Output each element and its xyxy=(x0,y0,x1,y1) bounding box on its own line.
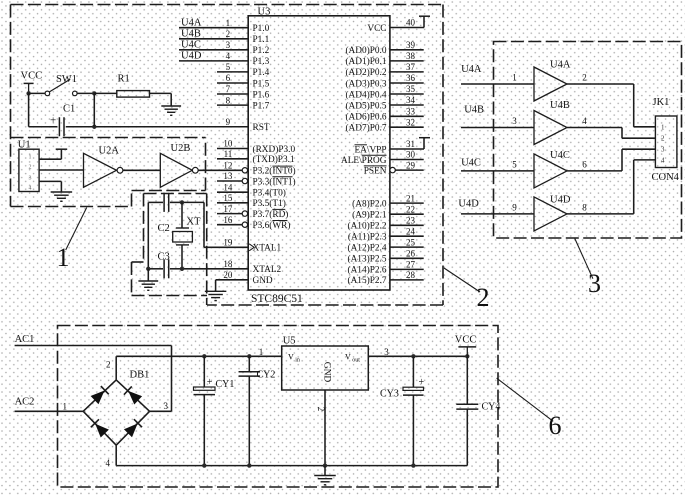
IC U3 STC89C51 body xyxy=(248,7,390,306)
svg-text:P1.5: P1.5 xyxy=(253,79,270,89)
U3 pin 40 (VCC) wire xyxy=(390,16,430,28)
ground (R1) xyxy=(161,106,181,115)
section 1 boundary step xyxy=(131,191,133,207)
U3 pin 22 ((A9)P2.1) wire xyxy=(390,204,424,214)
U3 pin 31 (EA\VPP) wire xyxy=(390,138,430,150)
U3 pin 11 ((TXD)P3.1) wire xyxy=(217,149,248,159)
U3 pin 1 (P1.0) wire xyxy=(179,18,248,28)
U3 pin label P3.6(WR) xyxy=(253,220,291,231)
buffer U4C xyxy=(534,150,570,188)
U3 pin 8 (P1.7) wire xyxy=(217,95,248,105)
U3 pin label P1.7 xyxy=(253,101,270,111)
svg-text:P1.7: P1.7 xyxy=(253,101,270,111)
wire bridge node 2 to positive rail xyxy=(116,356,282,380)
U3 pin 2 (P1.1) wire xyxy=(179,29,248,39)
U3 pin label P3.3(INT1) xyxy=(253,176,296,187)
U3 pin 19 (XTAL1) wire xyxy=(223,238,233,248)
svg-text:+: + xyxy=(207,377,213,388)
wire buffer output pin 4 to JK1 xyxy=(567,116,655,138)
svg-text:33: 33 xyxy=(406,107,416,117)
U3 pin label XTAL2 xyxy=(253,265,282,275)
U3 pin 6 (P1.5) wire xyxy=(217,73,248,83)
svg-text:34: 34 xyxy=(406,95,416,105)
ground (U3) xyxy=(205,291,227,300)
svg-text:P3.2(INT0): P3.2(INT0) xyxy=(253,166,296,177)
svg-text:(AD5)P0.5: (AD5)P0.5 xyxy=(345,100,386,111)
svg-text:18: 18 xyxy=(223,259,233,269)
svg-text:40: 40 xyxy=(406,18,416,28)
svg-text:1: 1 xyxy=(259,347,264,357)
svg-text:(TXD)P3.1: (TXD)P3.1 xyxy=(253,154,295,165)
U3 pin label P1.4 xyxy=(253,68,270,78)
svg-text:6: 6 xyxy=(226,73,231,83)
diode D2 (bridge upper-right) xyxy=(124,386,142,404)
svg-text:AC1: AC1 xyxy=(15,334,35,345)
svg-text:13: 13 xyxy=(223,171,233,181)
wire buffer output pin 2 to JK1 xyxy=(567,73,655,127)
svg-text:P1.0: P1.0 xyxy=(253,24,270,34)
svg-text:1: 1 xyxy=(57,243,70,272)
power flag VCC (reset circuit) xyxy=(21,71,43,94)
U3 pin 15 (P3.5(T1)) wire xyxy=(217,193,248,203)
U3 pin 23 ((A10)P2.2) wire xyxy=(390,216,424,226)
svg-text:CON4: CON4 xyxy=(652,172,680,183)
net label U4B xyxy=(181,29,201,40)
net label U4B (section 3 input) xyxy=(464,105,484,116)
U3 pin 14 (P3.4(T0)) wire xyxy=(217,182,248,192)
connector U1 xyxy=(18,140,39,192)
svg-text:CY3: CY3 xyxy=(380,389,399,400)
svg-text:(A8)P2.0: (A8)P2.0 xyxy=(352,198,387,209)
svg-text:4: 4 xyxy=(661,156,665,164)
svg-text:5: 5 xyxy=(226,62,231,72)
svg-text:V: V xyxy=(345,352,351,361)
crystal sub-box top edge xyxy=(144,193,207,195)
U3 pin 26 ((A13)P2.5) wire xyxy=(390,249,424,259)
section 1 boundary left edge xyxy=(10,5,12,207)
svg-text:3: 3 xyxy=(588,269,601,298)
wire C1 to RST line xyxy=(66,126,248,128)
net label U4A (section 3 input) xyxy=(461,64,482,75)
wire bridge node 4 to ground rail xyxy=(116,445,467,465)
svg-text:6: 6 xyxy=(549,411,562,440)
wire bridge node 3 stub xyxy=(150,410,172,412)
U3 pin label (A10)P2.2 xyxy=(348,221,387,232)
label 3 pointer line xyxy=(575,239,593,279)
U3 pin label GND xyxy=(253,276,273,286)
U3 pin label (A9)P2.1 xyxy=(352,210,387,221)
wire VCC rail down to C1 xyxy=(29,93,58,126)
svg-text:23: 23 xyxy=(406,216,416,226)
svg-text:16: 16 xyxy=(223,215,233,225)
U3 pin 32 ((AD7)P0.7) wire xyxy=(390,117,424,127)
U3 pin label P1.3 xyxy=(253,57,270,67)
svg-text:38: 38 xyxy=(406,51,416,61)
U3 pin label PSEN xyxy=(364,166,387,177)
net label U4A xyxy=(181,18,202,29)
U3 pin label (AD7)P0.7 xyxy=(345,123,386,134)
svg-text:XTAL1: XTAL1 xyxy=(253,244,282,254)
U3 pin label ALE\PROG xyxy=(341,155,387,166)
svg-text:2: 2 xyxy=(316,407,326,412)
svg-text:P1.2: P1.2 xyxy=(253,46,270,56)
svg-text:U4B: U4B xyxy=(550,100,570,111)
svg-text:SW1: SW1 xyxy=(56,74,77,85)
U3 pin label (AD4)P0.4 xyxy=(345,89,386,100)
svg-text:V: V xyxy=(288,352,294,361)
capacitor CY1 xyxy=(194,354,235,468)
U3 pin 33 ((AD6)P0.6) wire xyxy=(390,107,424,117)
U3 pin label P1.1 xyxy=(253,35,270,45)
U3 pin label P3.2(INT0) xyxy=(253,166,296,177)
svg-text:EA\VPP: EA\VPP xyxy=(354,145,386,155)
wire crystal bottom rail xyxy=(148,268,248,270)
diode D4 (bridge lower-right) xyxy=(124,419,142,437)
svg-text:U4C: U4C xyxy=(550,150,570,161)
U3 pin label (AD0)P0.0 xyxy=(345,45,386,56)
U3 pin 20 (GND) wire xyxy=(223,270,233,280)
svg-text:(AD0)P0.0: (AD0)P0.0 xyxy=(345,45,386,56)
U3 pin label (A8)P2.0 xyxy=(352,198,387,209)
svg-text:P1.6: P1.6 xyxy=(253,90,270,100)
U3 pin label (AD3)P0.3 xyxy=(345,78,386,89)
svg-text:2: 2 xyxy=(106,360,111,370)
wire to ground (crystal) xyxy=(147,269,149,281)
svg-text:U4B: U4B xyxy=(181,29,201,40)
svg-text:out: out xyxy=(352,357,360,363)
inverter U2A xyxy=(84,146,123,188)
U3 pin label P1.5 xyxy=(253,79,270,89)
svg-text:(A15)P2.7: (A15)P2.7 xyxy=(348,275,387,286)
U3 pin 30 (ALE\PROG) wire xyxy=(390,150,424,160)
wire node to R1 xyxy=(94,92,117,94)
net label U4C (section 3 input) xyxy=(461,158,481,169)
svg-text:in: in xyxy=(295,357,300,363)
svg-text:1: 1 xyxy=(661,123,665,131)
U3 pin 13 (P3.3(INT1)) wire xyxy=(217,171,248,184)
wire U5 output rail xyxy=(368,355,467,357)
svg-text:27: 27 xyxy=(406,260,416,270)
svg-text:R1: R1 xyxy=(118,74,130,85)
ground (power supply) xyxy=(314,466,336,485)
svg-text:+: + xyxy=(419,377,425,388)
svg-text:8: 8 xyxy=(582,202,587,212)
svg-text:JK1: JK1 xyxy=(653,97,670,108)
wire buffer output pin 8 to JK1 xyxy=(567,160,655,214)
wire U2A to U2B xyxy=(123,169,160,171)
U3 pin label (AD6)P0.6 xyxy=(345,112,386,123)
svg-text:28: 28 xyxy=(406,270,416,280)
wire U1 pin to power bar xyxy=(39,149,61,159)
svg-text:(A13)P2.5: (A13)P2.5 xyxy=(348,254,387,265)
svg-text:U4D: U4D xyxy=(550,195,571,206)
U3 pin label (A12)P2.4 xyxy=(348,242,387,253)
svg-text:24: 24 xyxy=(406,226,416,236)
svg-text:8: 8 xyxy=(226,95,231,105)
label 2 xyxy=(477,283,490,312)
wire U5 GND pin to ground rail xyxy=(316,390,327,468)
svg-text:36: 36 xyxy=(406,73,416,83)
U3 pin 21 ((A8)P2.0) wire xyxy=(390,193,424,203)
svg-text:(A10)P2.2: (A10)P2.2 xyxy=(348,221,387,232)
svg-text:P1.1: P1.1 xyxy=(253,35,270,45)
svg-text:30: 30 xyxy=(406,150,416,160)
U3 pin label P3.7(RD) xyxy=(253,209,289,220)
wire switch node down to RST line xyxy=(93,93,95,126)
junction RST node xyxy=(92,125,96,129)
power bar (U1) xyxy=(56,148,67,150)
U3 pin label P1.0 xyxy=(253,24,270,34)
svg-text:39: 39 xyxy=(406,40,416,50)
U3 pin 4 (P1.3) wire xyxy=(179,51,248,61)
bridge rectifier DB1 outline xyxy=(63,360,169,469)
svg-text:7: 7 xyxy=(226,84,231,94)
svg-text:3: 3 xyxy=(29,176,32,182)
svg-text:3: 3 xyxy=(164,401,169,411)
svg-text:GND: GND xyxy=(253,276,273,286)
svg-text:12: 12 xyxy=(223,161,232,171)
wire buffer output pin 6 to JK1 xyxy=(567,149,655,171)
svg-text:P3.3(INT1): P3.3(INT1) xyxy=(253,176,296,187)
svg-text:21: 21 xyxy=(406,193,415,203)
net label U4D xyxy=(181,51,202,62)
U3 pin label (A15)P2.7 xyxy=(348,275,387,286)
svg-text:(A11)P2.3: (A11)P2.3 xyxy=(348,232,387,243)
svg-text:U4C: U4C xyxy=(181,40,201,51)
U3 pin 3 (P1.2) wire xyxy=(179,40,248,50)
crystal sub-box left edge lower xyxy=(131,262,133,296)
svg-text:1: 1 xyxy=(512,73,517,83)
svg-text:C2: C2 xyxy=(158,223,170,234)
U3 pin label P1.6 xyxy=(253,90,270,100)
label 6 pointer line xyxy=(497,378,554,421)
U3 pin 16 (P3.6(WR)) wire xyxy=(217,215,248,228)
junction crystal bottom xyxy=(180,267,184,271)
svg-text:(RXD)P3.0: (RXD)P3.0 xyxy=(253,144,296,155)
svg-text:(AD3)P0.3: (AD3)P0.3 xyxy=(345,78,386,89)
U3 pin 10 ((RXD)P3.0) wire xyxy=(217,139,248,149)
svg-text:(A9)P2.1: (A9)P2.1 xyxy=(352,210,387,221)
svg-text:XT: XT xyxy=(187,217,202,228)
buffer U4A xyxy=(534,60,571,102)
U3 pin 36 ((AD3)P0.3) wire xyxy=(390,73,424,83)
svg-text:VCC: VCC xyxy=(455,335,477,346)
crystal XT xyxy=(173,202,201,268)
wire SW1 to node xyxy=(77,92,94,94)
wire U2B to U3 pin12 xyxy=(198,169,242,171)
svg-text:U4A: U4A xyxy=(461,64,482,75)
section 3 boundary xyxy=(494,42,682,239)
capacitor C2 xyxy=(158,193,170,234)
U3 pin label P3.4(T0) xyxy=(253,188,286,199)
capacitor C3 xyxy=(158,252,170,279)
net label AC2 xyxy=(15,397,35,408)
U3 pin label (AD1)P0.1 xyxy=(345,56,386,67)
svg-text:U5: U5 xyxy=(283,336,296,347)
section 6 boundary xyxy=(58,326,499,488)
svg-text:P3.5(T1): P3.5(T1) xyxy=(253,198,286,209)
svg-text:22: 22 xyxy=(406,204,415,214)
svg-text:U4D: U4D xyxy=(458,199,479,210)
capacitor CY3 xyxy=(380,354,425,468)
inverter U2B xyxy=(160,143,198,187)
svg-text:VCC: VCC xyxy=(21,71,43,82)
svg-text:17: 17 xyxy=(223,204,233,214)
svg-text:2: 2 xyxy=(661,135,665,143)
resistor R1 xyxy=(117,74,150,98)
svg-text:(AD1)P0.1: (AD1)P0.1 xyxy=(345,56,386,67)
svg-text:5: 5 xyxy=(512,159,517,169)
svg-text:10: 10 xyxy=(223,139,233,149)
section 1 boundary bottom-right edge xyxy=(132,190,206,192)
capacitor CY4 xyxy=(456,356,500,465)
svg-text:20: 20 xyxy=(223,270,233,280)
svg-text:4: 4 xyxy=(226,51,231,61)
svg-text:C3: C3 xyxy=(158,252,170,263)
U3 pin label (A11)P2.3 xyxy=(348,232,387,243)
svg-text:STC89C51: STC89C51 xyxy=(251,293,303,305)
U3 pin label VCC xyxy=(367,24,386,34)
svg-text:PSEN: PSEN xyxy=(364,166,387,176)
svg-text:2: 2 xyxy=(226,29,231,39)
U3 pin label RST xyxy=(253,123,270,133)
svg-text:U2B: U2B xyxy=(171,143,191,154)
label 3 xyxy=(588,269,601,298)
svg-text:2: 2 xyxy=(477,283,490,312)
svg-text:CY2: CY2 xyxy=(257,370,276,381)
label 1 xyxy=(57,243,70,272)
wire crystal left leg xyxy=(147,202,149,268)
net label U4D (section 3 input) xyxy=(458,199,479,210)
section 2 boundary right edge xyxy=(442,5,444,306)
svg-text:U4B: U4B xyxy=(464,105,484,116)
svg-text:1: 1 xyxy=(226,18,231,28)
svg-text:(AD2)P0.2: (AD2)P0.2 xyxy=(345,67,386,78)
U3 pin label (A14)P2.6 xyxy=(348,265,387,276)
svg-text:35: 35 xyxy=(406,84,416,94)
crystal sub-box right edge xyxy=(206,194,208,306)
U3 pin 39 ((AD0)P0.0) wire xyxy=(390,40,424,50)
U3 pin 9 (RST) wire xyxy=(226,117,231,127)
wire U3 GND pin to ground xyxy=(216,280,249,292)
label 2 pointer line xyxy=(444,268,480,292)
svg-text:P3.6(WR): P3.6(WR) xyxy=(253,220,291,231)
svg-text:4: 4 xyxy=(106,458,111,468)
svg-text:32: 32 xyxy=(406,117,415,127)
svg-text:(A14)P2.6: (A14)P2.6 xyxy=(348,265,387,276)
svg-text:31: 31 xyxy=(406,139,415,149)
svg-text:U1: U1 xyxy=(18,140,31,151)
wire U1 pin to ground xyxy=(39,181,61,192)
svg-text:1: 1 xyxy=(29,155,32,161)
wire crystal top rail xyxy=(148,201,204,203)
buffer U4D xyxy=(534,195,571,231)
U3 pin label (AD2)P0.2 xyxy=(345,67,386,78)
svg-text:3: 3 xyxy=(512,116,517,126)
junction crystal bottom left xyxy=(146,267,150,271)
U3 pin 25 ((A12)P2.4) wire xyxy=(390,237,424,247)
U3 pin label P1.2 xyxy=(253,46,270,56)
U3 pin label (RXD)P3.0 xyxy=(253,144,296,155)
U3 pin 24 ((A11)P2.3) wire xyxy=(390,226,424,236)
svg-text:ALE\PROG: ALE\PROG xyxy=(341,156,387,166)
U3 pin 7 (P1.6) wire xyxy=(217,84,248,94)
svg-text:+: + xyxy=(50,115,56,127)
svg-text:P3.7(RD): P3.7(RD) xyxy=(253,209,289,220)
svg-text:P1.3: P1.3 xyxy=(253,57,270,67)
svg-text:4: 4 xyxy=(29,186,32,192)
crystal sub-box left edge upper xyxy=(143,194,145,263)
svg-text:14: 14 xyxy=(223,182,233,192)
svg-text:1: 1 xyxy=(63,402,68,412)
svg-text:15: 15 xyxy=(223,193,233,203)
U3 pin label P3.5(T1) xyxy=(253,198,286,209)
section 2 boundary bottom edge xyxy=(207,304,443,306)
U3 pin label EA\VPP xyxy=(354,145,386,156)
junction at VCC stem xyxy=(26,91,30,95)
svg-text:U4D: U4D xyxy=(181,51,202,62)
U3 pin 28 ((A15)P2.7) wire xyxy=(390,270,424,280)
section 1 boundary bottom-left edge xyxy=(11,206,132,208)
svg-text:2: 2 xyxy=(582,73,587,83)
svg-text:11: 11 xyxy=(224,149,233,159)
diode D3 (bridge lower-left) xyxy=(91,419,109,437)
svg-text:3: 3 xyxy=(661,146,665,154)
section 1+2 outer boundary top edge xyxy=(11,4,444,6)
svg-text:DB1: DB1 xyxy=(130,370,150,381)
junction crystal top xyxy=(180,200,184,204)
U3 pin 29 (PSEN) wire xyxy=(390,160,424,173)
wire U4A input xyxy=(461,73,534,85)
wire top node to XTAL1 xyxy=(204,202,248,247)
wire U1 to U2A input xyxy=(39,169,83,171)
svg-text:(AD4)P0.4: (AD4)P0.4 xyxy=(345,89,386,100)
svg-text:XTAL2: XTAL2 xyxy=(253,265,282,275)
U3 pin 37 ((AD2)P0.2) wire xyxy=(390,62,424,72)
svg-text:RST: RST xyxy=(253,123,270,133)
svg-text:9: 9 xyxy=(226,117,231,127)
svg-text:4: 4 xyxy=(582,116,587,126)
svg-text:9: 9 xyxy=(512,202,517,212)
svg-text:25: 25 xyxy=(406,237,416,247)
net label U4C xyxy=(181,40,201,51)
svg-text:19: 19 xyxy=(223,238,233,248)
diode D1 (bridge upper-left) xyxy=(91,386,109,404)
U3 pin 35 ((AD4)P0.4) wire xyxy=(390,84,424,94)
label 1 pointer line xyxy=(66,208,87,251)
section 1 boundary inner top edge xyxy=(11,137,206,139)
wire U4D input xyxy=(461,202,534,214)
label 6 xyxy=(549,411,562,440)
svg-text:U4C: U4C xyxy=(461,158,481,169)
wire U4B input xyxy=(461,116,534,128)
wire AC2 xyxy=(15,410,84,412)
svg-text:6: 6 xyxy=(582,159,587,169)
crystal sub-box bottom edge xyxy=(132,295,208,297)
regulator U5 xyxy=(259,336,390,391)
svg-text:37: 37 xyxy=(406,62,416,72)
wire AC1 xyxy=(15,346,172,412)
power flag VCC (output) xyxy=(455,335,477,359)
U3 XTAL1 clock input arrow xyxy=(249,244,254,251)
U3 pin label (A13)P2.5 xyxy=(348,254,387,265)
ground (crystal) xyxy=(138,281,158,290)
switch SW1 xyxy=(45,74,77,96)
capacitor C1 xyxy=(50,104,75,137)
U3 pin 34 ((AD5)P0.5) wire xyxy=(390,95,424,105)
svg-text:3: 3 xyxy=(226,40,231,50)
U3 pin label (AD5)P0.5 xyxy=(345,100,386,111)
